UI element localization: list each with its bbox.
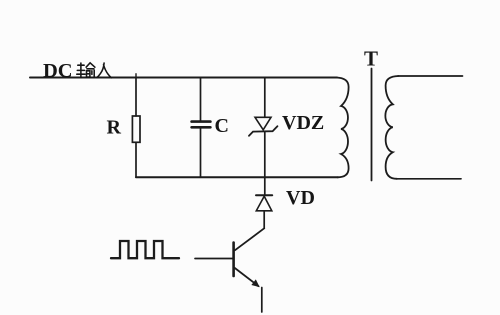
zener diode VDZ cathode bar	[249, 126, 277, 136]
wire: rail to diode VD	[264, 177, 266, 195]
wire: bottom rail	[136, 176, 338, 178]
diode VD cathode bar	[256, 194, 272, 196]
zener diode VDZ triangle	[255, 117, 271, 130]
svg-text:DC: DC	[43, 60, 73, 82]
wire: emitter down	[261, 288, 263, 313]
pulse waveform symbol	[111, 241, 179, 258]
svg-text:VD: VD	[286, 187, 315, 209]
resistor R lead top	[135, 78, 137, 117]
capacitor C lead top	[200, 78, 202, 121]
label DC输入	[43, 60, 73, 82]
zener diode VDZ lead top	[264, 78, 266, 118]
wire: diode VD to transistor collector	[263, 211, 265, 229]
label C	[215, 115, 229, 137]
zener diode VDZ lead bottom	[264, 131, 266, 177]
transformer core	[371, 69, 373, 181]
junction stub at resistor top	[135, 74, 137, 78]
svg-text:R: R	[107, 117, 122, 139]
transistor emitter diagonal	[235, 268, 259, 286]
transistor collector diagonal	[235, 228, 264, 250]
wire: DC input top rail	[30, 77, 337, 79]
transformer secondary winding	[385, 76, 398, 179]
label T	[364, 47, 378, 71]
transistor base bar	[232, 243, 235, 277]
transistor emitter arrowhead	[253, 281, 259, 287]
resistor R lead bottom	[135, 142, 137, 177]
svg-text:C: C	[215, 115, 229, 137]
svg-text:T: T	[364, 47, 378, 71]
svg-text:VDZ: VDZ	[282, 112, 324, 134]
label R	[107, 117, 122, 139]
diode VD triangle	[256, 196, 272, 211]
wire: secondary bottom lead	[397, 178, 462, 180]
transistor base wire	[195, 258, 232, 260]
capacitor C plates	[192, 120, 211, 123]
resistor R	[132, 116, 140, 142]
label VD	[286, 187, 315, 209]
wire: secondary top lead	[398, 75, 463, 77]
capacitor C lead bottom	[200, 129, 202, 178]
label VDZ	[282, 112, 324, 134]
transformer primary winding	[336, 78, 349, 178]
